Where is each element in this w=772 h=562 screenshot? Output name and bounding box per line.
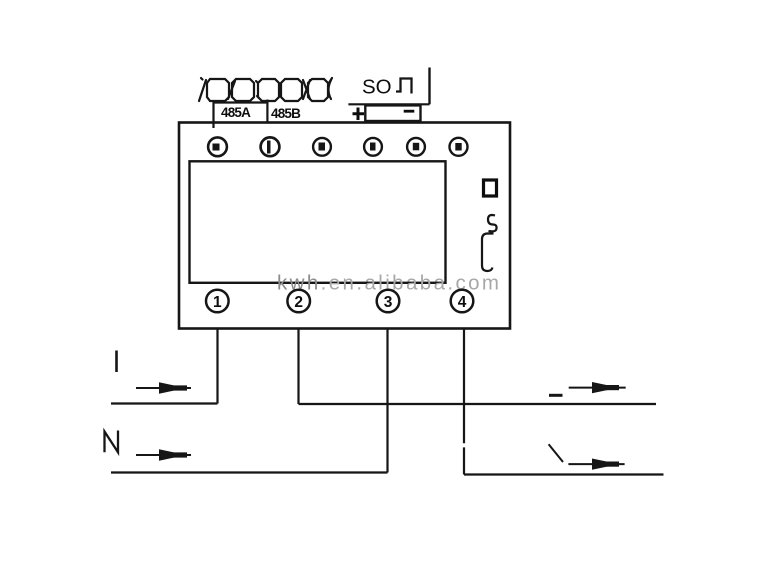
wire neutral out horizontal [464,473,664,475]
bottom terminal 4 [451,290,474,313]
wire N horizontal [111,471,388,473]
minus label on load line [549,394,563,397]
wire load line out [299,403,657,405]
coil winding row (terminal strip scallops) [199,78,332,101]
bottom terminal 2 [287,290,310,313]
top terminal screw 4 [364,138,382,156]
wire line L horizontal [111,402,218,404]
SO box right line [428,68,430,105]
seal clip bracket [482,234,494,272]
svg-text:485A: 485A [221,105,251,120]
bottom terminal 1 [206,290,229,313]
top terminal screw 2 [261,137,280,156]
switch blade stroke [549,444,563,462]
svg-text:SO: SO [362,76,392,99]
wire terminal3 vertical [386,329,388,473]
svg-text:4: 4 [458,294,467,311]
arrow neutral out [568,459,624,470]
485A label box [214,100,268,129]
svg-text:2: 2 [294,294,303,311]
wire terminal4 vertical (with break) [463,329,465,475]
top terminal screw 5 [407,138,425,156]
plus sign [353,108,365,121]
arrow L in [136,382,191,394]
seal squiggle s [488,215,497,231]
arrow load out [569,382,626,393]
bottom terminal 3 [377,290,400,313]
top terminal screw 6 [450,138,468,156]
wire terminal2 vertical [297,329,299,404]
svg-text:1: 1 [213,294,222,311]
LCD display window [190,161,446,282]
arrow N in [136,449,191,461]
pulse terminal rect [365,105,420,121]
SO box bottom line [348,103,429,105]
pulse waveform glyph [396,79,412,94]
label I (line input) [115,351,118,373]
meter outer case [179,123,510,329]
wire terminal1 vertical [216,329,218,404]
top terminal screw 3 [313,138,331,156]
svg-text:3: 3 [384,294,393,311]
svg-text:485B: 485B [271,106,301,121]
push button square [484,180,497,196]
top terminal screw 1 [208,137,227,156]
label N [105,431,119,453]
minus sign in rect [404,110,415,113]
